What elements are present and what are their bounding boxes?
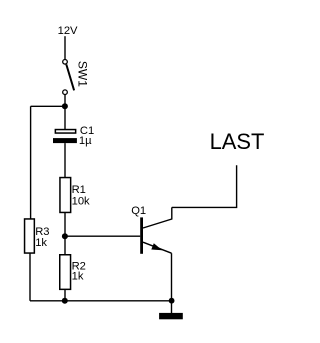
transistor Q1 collector lead: [143, 207, 172, 228]
svg-text:R1: R1: [72, 184, 86, 196]
wire node D to ground: [171, 301, 173, 313]
resistor R3: [25, 219, 35, 253]
junction node A: [62, 103, 68, 109]
wire R3 to bottom rail: [29, 253, 31, 300]
svg-text:1k: 1k: [72, 271, 84, 283]
svg-text:1k: 1k: [35, 237, 47, 249]
junction node D: [169, 298, 175, 304]
wire emitter to bottom rail: [171, 253, 173, 301]
transistor Q1 emitter arrow: [151, 243, 162, 250]
switch SW1 top terminal: [63, 60, 68, 65]
resistor R2: [60, 255, 71, 290]
transistor Q1 emitter lead: [143, 242, 172, 253]
svg-text:12V: 12V: [58, 25, 78, 37]
transistor Q1 base bar: [140, 217, 143, 253]
capacitor C1 top plate: [55, 130, 75, 134]
wire node A to left branch: [31, 105, 65, 107]
wire switch to node A: [64, 95, 66, 130]
junction node B: [62, 233, 68, 239]
switch SW1 bottom terminal: [63, 90, 68, 95]
ground: [159, 313, 183, 319]
wire C1 to R1: [64, 143, 66, 177]
junction node C: [62, 298, 68, 304]
wire left branch down to R3: [30, 106, 32, 218]
wire collector to LAST: [172, 165, 237, 207]
svg-text:LAST: LAST: [210, 129, 265, 154]
wire R1 to R2 through node B: [64, 213, 66, 255]
svg-text:Q1: Q1: [131, 205, 146, 217]
wire R2 to bottom rail: [64, 290, 66, 301]
capacitor C1 bottom plate: [53, 138, 77, 143]
svg-text:1µ: 1µ: [79, 135, 92, 147]
wire node B to Q1 base: [65, 235, 140, 237]
svg-text:10k: 10k: [72, 195, 90, 207]
switch SW1 blade: [66, 64, 74, 90]
wire 12V to switch: [64, 36, 66, 59]
wire bottom rail: [30, 300, 172, 302]
resistor R1: [60, 178, 71, 213]
svg-text:SW1: SW1: [76, 61, 90, 87]
